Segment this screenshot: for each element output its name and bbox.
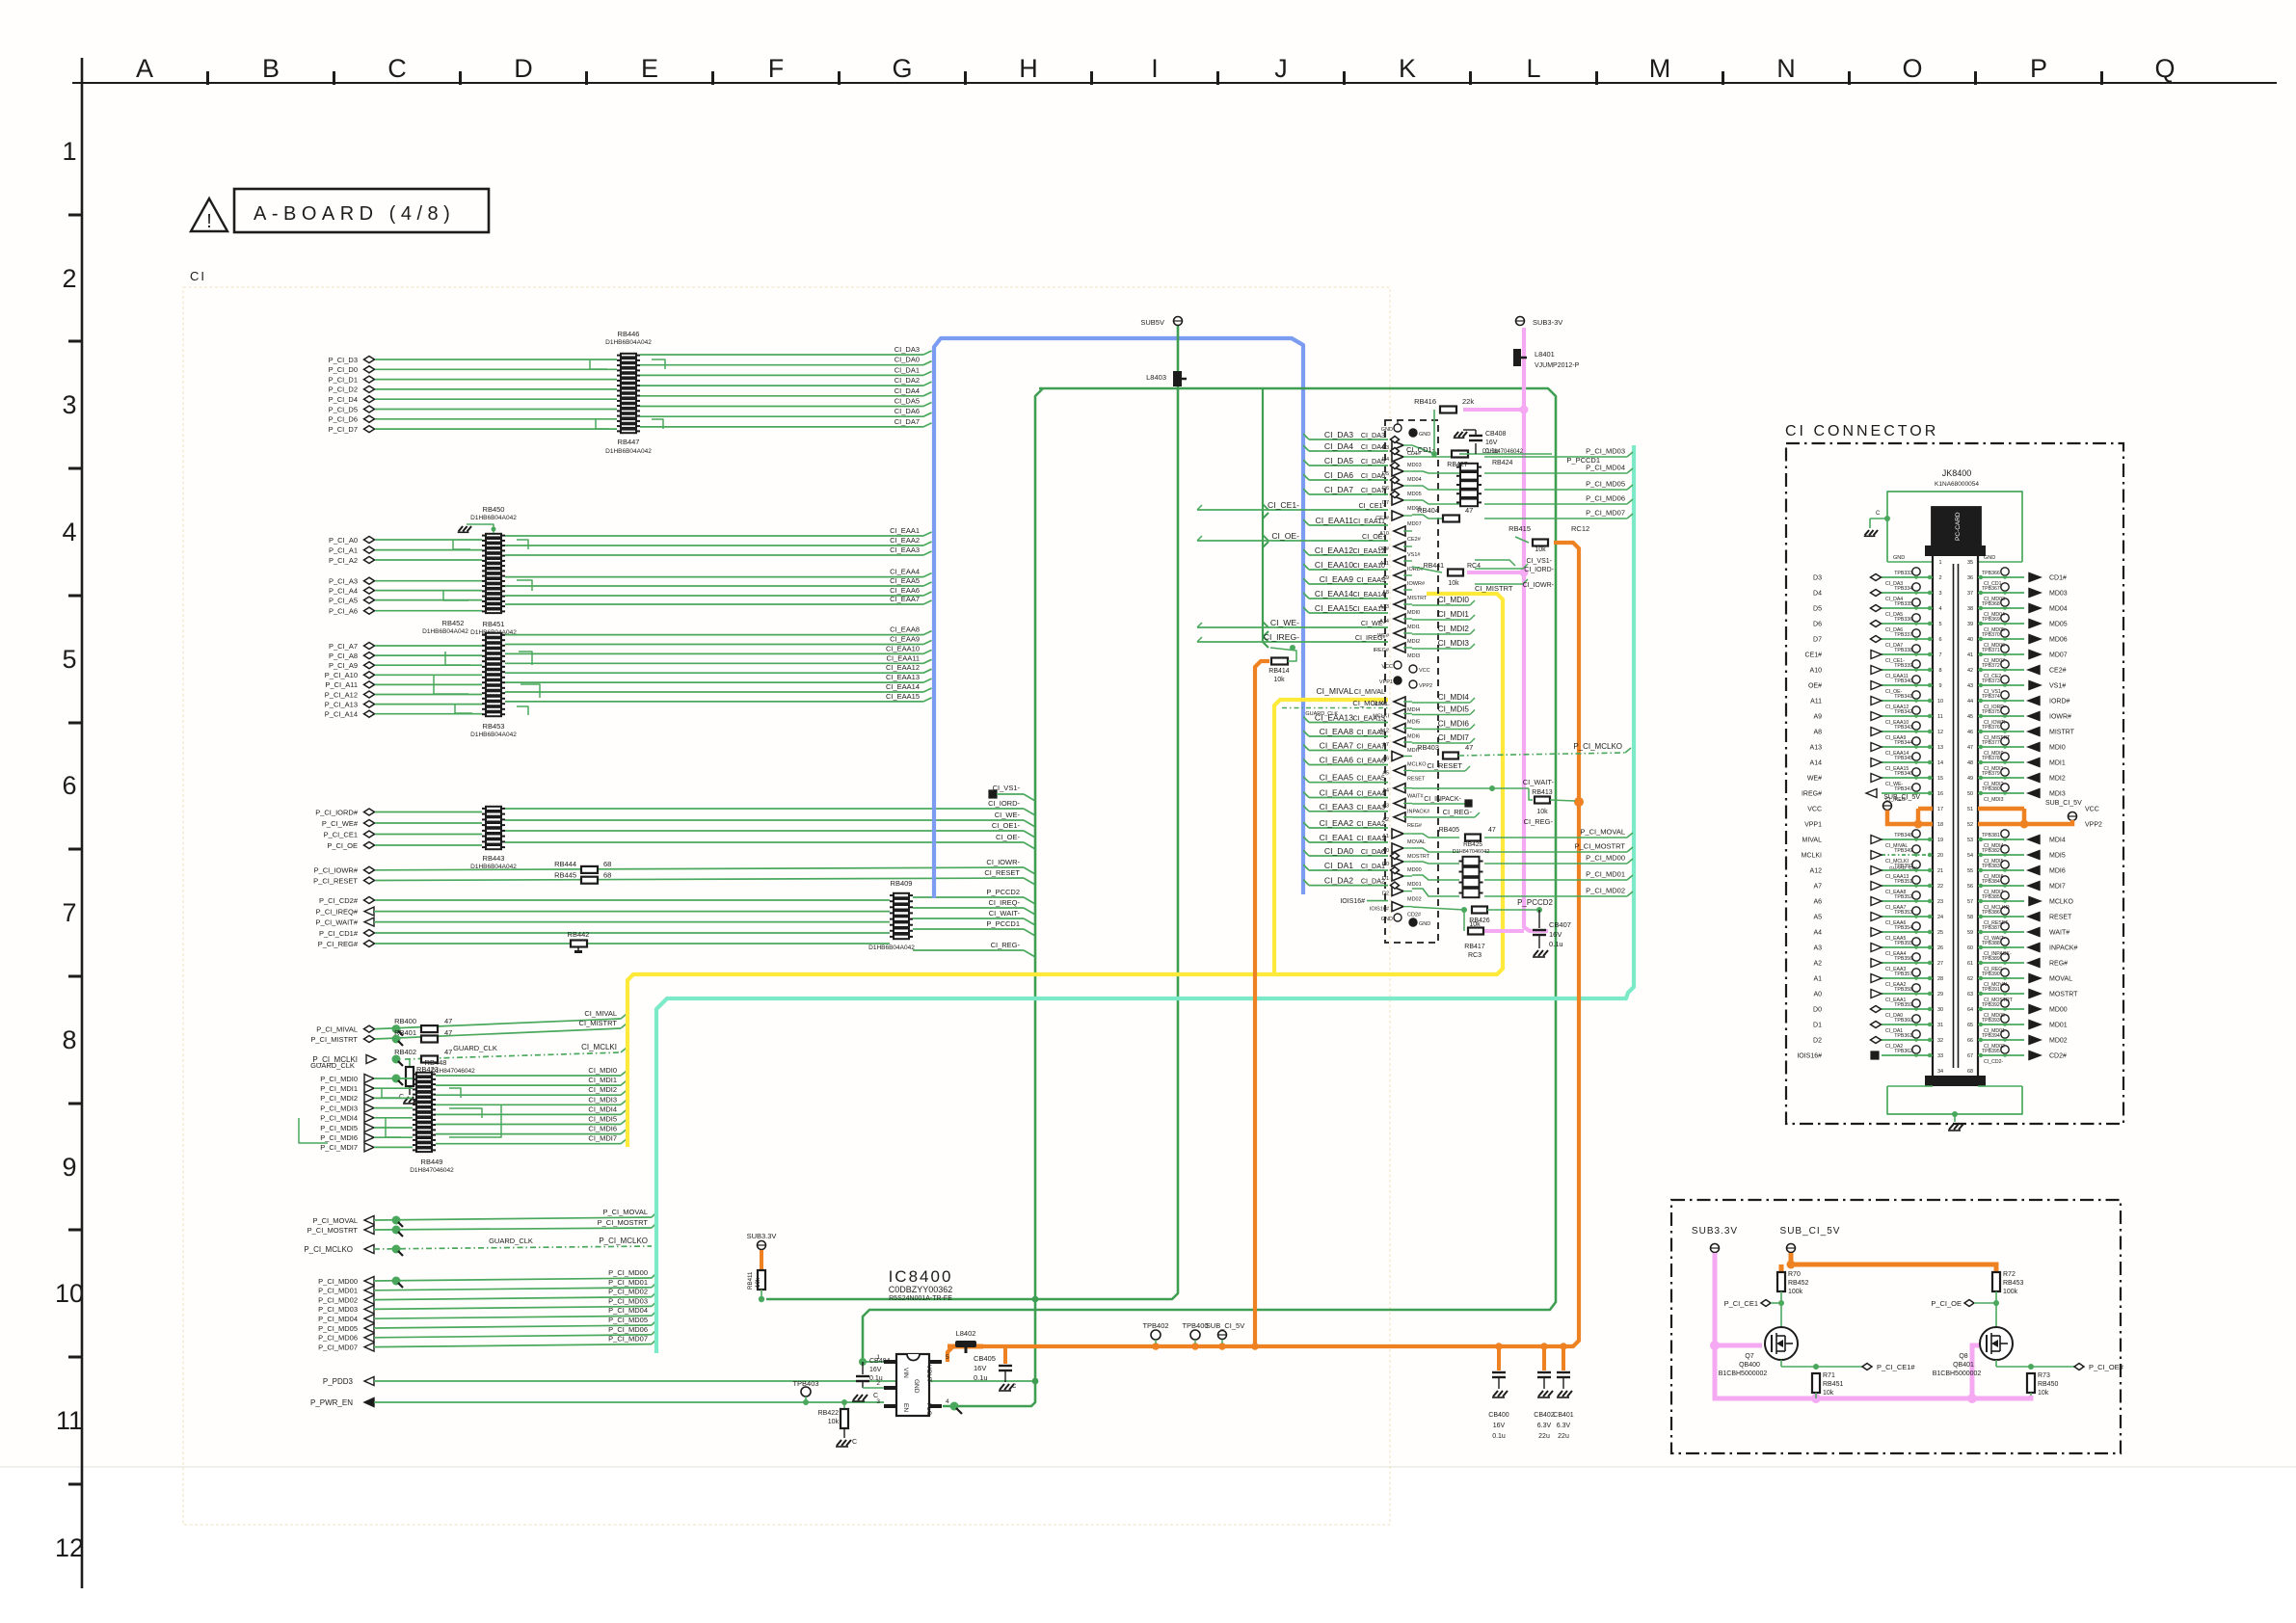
- wires P_CI_MOVAL / P_CI_MOSTRT / P_CI_MCLKO: [304, 1208, 656, 1254]
- svg-text:B1CBH5000002: B1CBH5000002: [1933, 1370, 1982, 1377]
- svg-text:TPB339: TPB339: [1894, 663, 1912, 669]
- svg-text:P_CI_WE#: P_CI_WE#: [322, 819, 359, 828]
- svg-text:CI_IORD-: CI_IORD-: [1524, 567, 1554, 573]
- svg-text:D2: D2: [1813, 1038, 1822, 1045]
- svg-text:D1HB6B04A042: D1HB6B04A042: [605, 448, 652, 455]
- svg-text:47: 47: [444, 1017, 452, 1025]
- svg-text:12: 12: [1937, 730, 1943, 735]
- svg-text:14: 14: [1937, 760, 1943, 766]
- svg-text:MCLKI: MCLKI: [1802, 853, 1822, 860]
- svg-text:L: L: [1526, 54, 1540, 83]
- svg-text:10k: 10k: [755, 1277, 761, 1288]
- net stub CI_INPACK-: [1412, 796, 1472, 807]
- svg-text:VCC: VCC: [1807, 807, 1822, 813]
- resistor RB442: [568, 930, 590, 953]
- svg-text:CI_OE-: CI_OE-: [1271, 531, 1299, 541]
- svg-text:CI_EAA7: CI_EAA7: [890, 595, 920, 603]
- terminal P_CI_OE: [1931, 1299, 1996, 1308]
- svg-text:IOIS16#: IOIS16#: [1797, 1053, 1822, 1060]
- svg-text:16V: 16V: [1549, 930, 1562, 939]
- svg-text:CB404: CB404: [869, 1358, 891, 1365]
- svg-text:P_CI_MOSTRT: P_CI_MOSTRT: [1575, 842, 1626, 851]
- svg-text:P_CI_MDI6: P_CI_MDI6: [320, 1133, 358, 1142]
- svg-text:CI_EAA15: CI_EAA15: [1352, 604, 1385, 613]
- svg-text:MD07: MD07: [1407, 521, 1422, 527]
- svg-text:K: K: [1399, 54, 1416, 83]
- svg-text:RB409: RB409: [891, 879, 913, 888]
- svg-text:CI_MISTRT: CI_MISTRT: [579, 1019, 618, 1027]
- svg-text:P_CI_MD02: P_CI_MD02: [318, 1295, 358, 1304]
- svg-text:100k: 100k: [1788, 1289, 1803, 1295]
- svg-text:WAIT#: WAIT#: [1407, 794, 1425, 800]
- svg-text:GND: GND: [1381, 917, 1393, 922]
- svg-text:P_CI_MIVAL: P_CI_MIVAL: [316, 1024, 358, 1033]
- svg-text:OE#: OE#: [1808, 683, 1822, 690]
- svg-text:TPB374: TPB374: [1982, 694, 2000, 700]
- svg-text:TPB381: TPB381: [1982, 833, 2000, 838]
- svg-text:29: 29: [1937, 992, 1943, 998]
- svg-text:VS1#: VS1#: [2049, 683, 2066, 690]
- svg-text:TPB343: TPB343: [1894, 725, 1912, 731]
- svg-text:TPB337: TPB337: [1894, 632, 1912, 638]
- wires P_CI_IOWR / P_CI_RESET: [313, 858, 1035, 885]
- svg-text:TPB359: TPB359: [1894, 1002, 1912, 1008]
- svg-text:CI_EAA13: CI_EAA13: [1352, 714, 1385, 723]
- blue trunk wire (data/address collector): [934, 338, 1303, 898]
- resistor RB403 MCLKO dashed: [1417, 742, 1631, 759]
- svg-text:CI_EAA3: CI_EAA3: [1320, 802, 1354, 811]
- svg-text:D1HB6B04A042: D1HB6B04A042: [470, 515, 517, 521]
- svg-text:R72: R72: [2003, 1271, 2016, 1278]
- svg-text:P_PCCD1: P_PCCD1: [986, 919, 1020, 928]
- svg-text:CI_MDI1: CI_MDI1: [588, 1076, 617, 1084]
- svg-text:TPB360: TPB360: [1894, 1018, 1912, 1024]
- svg-text:D2: D2: [1382, 891, 1389, 897]
- svg-text:47: 47: [1465, 743, 1473, 752]
- svg-text:45: 45: [1967, 714, 1973, 720]
- svg-text:TPB391: TPB391: [1982, 987, 2000, 993]
- svg-text:23: 23: [1937, 899, 1943, 905]
- svg-text:18: 18: [1937, 822, 1943, 828]
- svg-text:10: 10: [1937, 699, 1943, 705]
- svg-text:10k: 10k: [1469, 921, 1481, 928]
- svg-text:VPP2: VPP2: [1419, 683, 1432, 689]
- resistor RB414: [1268, 645, 1296, 683]
- svg-text:CI_EAA5: CI_EAA5: [1320, 773, 1354, 783]
- svg-text:CE1#: CE1#: [1804, 652, 1822, 659]
- svg-text:RB411: RB411: [747, 1271, 754, 1290]
- net CI_WAIT- with RB413: [1412, 778, 1575, 815]
- svg-text:C: C: [399, 1094, 404, 1101]
- svg-text:H: H: [1019, 54, 1038, 83]
- svg-text:65: 65: [1967, 1023, 1973, 1028]
- connector left SUB_CI_5V orange: [1883, 794, 1934, 829]
- svg-text:RB427: RB427: [1447, 462, 1468, 468]
- svg-text:MD00: MD00: [2049, 1007, 2068, 1014]
- crossover jogs near RB448: [382, 1088, 399, 1098]
- svg-text:P_CI_MD01: P_CI_MD01: [608, 1278, 648, 1287]
- svg-text:IC8400: IC8400: [889, 1267, 953, 1286]
- wire bus P_CI_IORD/WE/CE1/OE: [315, 799, 1035, 850]
- net-tie dots group7: [392, 1024, 401, 1033]
- svg-text:CI_EAA2: CI_EAA2: [890, 536, 920, 545]
- svg-text:CI_WE-: CI_WE-: [1270, 618, 1299, 627]
- svg-text:I: I: [1151, 54, 1159, 83]
- test points TPB402 TPB400 SUB_CI_5V on 5V rail: [1142, 1321, 1244, 1344]
- svg-text:P_CI_A13: P_CI_A13: [325, 700, 358, 708]
- svg-text:D1HB6B04A042: D1HB6B04A042: [868, 945, 915, 951]
- svg-text:CI_MDI6: CI_MDI6: [1438, 720, 1470, 729]
- svg-text:CI_EAA8: CI_EAA8: [1356, 728, 1385, 736]
- svg-text:SUB_CI_5V: SUB_CI_5V: [1883, 794, 1920, 801]
- svg-text:6.3V: 6.3V: [1537, 1423, 1552, 1429]
- svg-text:TPB347: TPB347: [1894, 786, 1912, 792]
- svg-text:54: 54: [1967, 853, 1973, 859]
- svg-text:A2: A2: [1813, 961, 1822, 968]
- svg-text:A7: A7: [1813, 884, 1822, 891]
- svg-text:67: 67: [1967, 1053, 1973, 1059]
- svg-text:TPB386: TPB386: [1982, 910, 2000, 916]
- svg-text:INPACK#: INPACK#: [2049, 945, 2078, 952]
- net stubs CI_MDI4-MDI7: [1412, 693, 1475, 743]
- svg-text:MOSTRT: MOSTRT: [2049, 992, 2078, 998]
- svg-text:P_CI_MD03: P_CI_MD03: [318, 1305, 358, 1314]
- svg-text:MISTRT: MISTRT: [2049, 730, 2075, 736]
- svg-text:CI_MIVAL: CI_MIVAL: [1354, 687, 1385, 696]
- resistor RB411: [747, 1250, 765, 1302]
- svg-text:MD00: MD00: [1407, 867, 1422, 873]
- svg-text:MD04: MD04: [1407, 477, 1422, 483]
- svg-text:MD02: MD02: [2049, 1038, 2068, 1045]
- svg-text:N: N: [1776, 54, 1796, 83]
- svg-text:VPP1: VPP1: [1379, 679, 1393, 685]
- resistor pack RB425: [1459, 856, 1483, 898]
- svg-text:P_CI_MOSTRT: P_CI_MOSTRT: [598, 1218, 649, 1227]
- svg-text:CI_MDI4: CI_MDI4: [1438, 693, 1470, 702]
- svg-text:C: C: [852, 1439, 857, 1446]
- svg-text:RB448: RB448: [425, 1058, 447, 1067]
- svg-text:A6: A6: [1813, 899, 1822, 906]
- svg-text:46: 46: [1967, 730, 1973, 735]
- svg-text:P_CI_A1: P_CI_A1: [329, 545, 358, 554]
- orange junction dots on power rail: [1152, 1343, 1160, 1350]
- net-tie dots group9: [392, 1216, 401, 1225]
- svg-text:R73: R73: [2038, 1372, 2050, 1379]
- resistor RB402: [421, 1056, 438, 1063]
- svg-text:5: 5: [62, 645, 76, 674]
- svg-text:P_PCCD2: P_PCCD2: [1517, 898, 1553, 907]
- connector PC-CARD block: [1932, 507, 1981, 545]
- svg-text:TPB375: TPB375: [1982, 709, 2000, 715]
- svg-text:CI_EAA6: CI_EAA6: [1320, 756, 1354, 765]
- wire VIN junction: [859, 1358, 884, 1366]
- svg-text:P_CI_D0: P_CI_D0: [329, 365, 358, 374]
- svg-text:TPB352: TPB352: [1894, 894, 1912, 900]
- svg-text:EN: EN: [902, 1403, 909, 1412]
- svg-text:P_CI_MCLKO: P_CI_MCLKO: [1573, 742, 1622, 751]
- svg-text:GUARD_CLK: GUARD_CLK: [489, 1237, 533, 1245]
- svg-text:P_CI_MD05: P_CI_MD05: [318, 1324, 358, 1333]
- svg-text:D1H847046042: D1H847046042: [1453, 849, 1490, 855]
- svg-text:RB441: RB441: [1424, 563, 1445, 570]
- svg-text:CI_DA0: CI_DA0: [1361, 847, 1385, 856]
- svg-text:RB404: RB404: [1417, 506, 1439, 515]
- svg-text:CI_DA3: CI_DA3: [894, 345, 920, 354]
- border ruler top line: [72, 82, 2277, 84]
- svg-text:SUB3-3V: SUB3-3V: [1533, 318, 1562, 327]
- svg-text:28: 28: [1937, 976, 1943, 982]
- svg-text:CB407: CB407: [1549, 920, 1571, 929]
- svg-text:A4: A4: [1813, 930, 1822, 937]
- green control bundle vertical: [1263, 388, 1268, 648]
- pink branch RB441: [1467, 571, 1524, 574]
- svg-text:32: 32: [1937, 1038, 1943, 1044]
- svg-text:CI_EAA11: CI_EAA11: [887, 653, 920, 662]
- svg-text:TPB392: TPB392: [1982, 1002, 2000, 1008]
- svg-text:48: 48: [1967, 760, 1973, 766]
- svg-text:D0: D0: [1813, 1007, 1822, 1014]
- svg-text:P_CI_OE: P_CI_OE: [1931, 1299, 1962, 1308]
- svg-text:CI_IORD-: CI_IORD-: [988, 799, 1020, 808]
- svg-text:6: 6: [62, 771, 76, 800]
- svg-text:4: 4: [1938, 606, 1941, 612]
- svg-text:P_CI_D6: P_CI_D6: [329, 415, 358, 424]
- connector right SUB_CI_5V orange: [1978, 800, 2082, 829]
- svg-text:68: 68: [603, 871, 611, 880]
- svg-text:IOIS16#: IOIS16#: [1340, 898, 1365, 905]
- svg-text:RB451: RB451: [1823, 1381, 1844, 1388]
- svg-text:MDI5: MDI5: [1407, 720, 1420, 726]
- svg-text:MDI1: MDI1: [1407, 625, 1420, 630]
- svg-text:CB405: CB405: [974, 1354, 996, 1363]
- svg-text:TPB383: TPB383: [1982, 864, 2000, 869]
- svg-text:RB442: RB442: [568, 930, 590, 939]
- svg-text:RC3: RC3: [1468, 952, 1482, 959]
- svg-text:38: 38: [1967, 606, 1973, 612]
- svg-text:CI_EAA10: CI_EAA10: [1352, 561, 1385, 570]
- orange trunk RB414 branch: [1255, 661, 1269, 1346]
- svg-text:P_CI_MCLKO: P_CI_MCLKO: [304, 1245, 353, 1254]
- svg-text:VCC: VCC: [2085, 807, 2099, 813]
- capacitors CB400 CB402 CB401 with grounds: [1488, 1346, 1574, 1440]
- svg-text:10k: 10k: [1536, 809, 1548, 815]
- svg-text:19: 19: [1937, 838, 1943, 843]
- crossover jogs near RB452: [445, 652, 470, 665]
- svg-text:GUARD_CLK: GUARD_CLK: [310, 1061, 355, 1070]
- svg-text:RESET: RESET: [2049, 915, 2072, 921]
- svg-text:TPB342: TPB342: [1894, 709, 1912, 715]
- wire bus P_CI_MD00-MD07: [318, 1268, 656, 1351]
- svg-text:1: 1: [1938, 560, 1941, 566]
- svg-text:P_CI_RESET: P_CI_RESET: [313, 876, 358, 885]
- svg-text:16V: 16V: [1493, 1423, 1506, 1429]
- svg-text:P_CI_A8: P_CI_A8: [329, 652, 358, 660]
- svg-text:RB416: RB416: [1414, 397, 1436, 406]
- svg-text:P_CI_A12: P_CI_A12: [325, 690, 358, 699]
- svg-text:CI_MDI2: CI_MDI2: [1438, 625, 1470, 633]
- svg-text:VPP1: VPP1: [1804, 822, 1822, 829]
- capacitor CB408 with ground: [1454, 430, 1507, 455]
- svg-text:TPB358: TPB358: [1894, 987, 1912, 993]
- svg-text:0.1u: 0.1u: [1485, 448, 1499, 455]
- svg-text:CI_EAA10: CI_EAA10: [1315, 560, 1353, 570]
- svg-text:CI_EAA3: CI_EAA3: [1356, 803, 1385, 811]
- power SUB3-3V top: [1516, 317, 1563, 328]
- svg-text:RB452: RB452: [1788, 1280, 1809, 1287]
- power SUB_CI_5V in box: [1780, 1226, 1841, 1253]
- svg-text:MD04: MD04: [2049, 606, 2068, 613]
- svg-text:A-BOARD (4/8): A-BOARD (4/8): [254, 203, 455, 225]
- svg-text:A: A: [136, 54, 153, 83]
- svg-text:CI_CD1-: CI_CD1-: [1406, 445, 1435, 454]
- svg-text:17: 17: [1937, 807, 1943, 812]
- svg-text:CE2#: CE2#: [1407, 537, 1422, 543]
- svg-text:RB450: RB450: [2038, 1381, 2059, 1388]
- svg-text:A1: A1: [1813, 976, 1822, 983]
- svg-text:D1HB6B04A042: D1HB6B04A042: [605, 339, 652, 346]
- svg-text:D1: D1: [1813, 1023, 1822, 1029]
- svg-text:CD2#: CD2#: [1407, 913, 1422, 918]
- connector JK8400 labels: [1935, 468, 1979, 488]
- svg-text:CI_MDI0: CI_MDI0: [1438, 596, 1470, 604]
- svg-text:P_CI_MD05: P_CI_MD05: [1586, 480, 1625, 489]
- svg-text:CI_DA6: CI_DA6: [1361, 471, 1385, 480]
- svg-text:CD1#: CD1#: [2049, 575, 2067, 582]
- svg-text:A14: A14: [1810, 760, 1823, 767]
- svg-text:IORD#: IORD#: [2049, 699, 2070, 705]
- svg-text:CI_DA4: CI_DA4: [894, 386, 920, 395]
- svg-text:TPB394: TPB394: [1982, 1033, 2000, 1039]
- net CI_CD1- with RB427 RB416 CB408: [1406, 397, 1600, 468]
- resistor RB401: [421, 1036, 438, 1043]
- svg-text:CI_DA5: CI_DA5: [1324, 456, 1353, 466]
- svg-text:A12: A12: [1810, 868, 1823, 875]
- svg-text:QB401: QB401: [1953, 1362, 1974, 1369]
- svg-text:7: 7: [1938, 652, 1941, 658]
- svg-text:CE2#: CE2#: [2049, 668, 2067, 675]
- svg-text:P_CI_MD07: P_CI_MD07: [318, 1343, 358, 1351]
- svg-text:C: C: [1876, 511, 1881, 517]
- capacitor CB407 with ground: [1533, 910, 1571, 957]
- svg-text:CI_MDI6: CI_MDI6: [588, 1125, 617, 1133]
- svg-text:RB414: RB414: [1268, 668, 1290, 675]
- svg-text:TPB393: TPB393: [1982, 1018, 2000, 1024]
- IC power pins VCC VPP GND: [1379, 420, 1432, 927]
- svg-text:IREG#: IREG#: [1802, 791, 1822, 798]
- svg-text:CI_DA7: CI_DA7: [894, 417, 920, 426]
- svg-text:10k: 10k: [1535, 546, 1546, 553]
- net stub CI_REG-: [1412, 808, 1554, 826]
- svg-text:Q7: Q7: [1745, 1353, 1753, 1360]
- svg-text:0.1u: 0.1u: [1549, 940, 1563, 948]
- border ruler left line: [81, 58, 84, 1588]
- svg-text:MD01: MD01: [2049, 1023, 2068, 1029]
- svg-text:MDI6: MDI6: [2049, 868, 2066, 875]
- cyan trunk wire: [656, 445, 1634, 1353]
- svg-text:P_CI_MD07: P_CI_MD07: [608, 1335, 648, 1344]
- svg-text:CB401: CB401: [1553, 1412, 1574, 1419]
- resistor pack RB448: [413, 1072, 436, 1153]
- svg-text:WAIT#: WAIT#: [2049, 930, 2069, 937]
- svg-text:CI_DA2: CI_DA2: [1324, 876, 1353, 886]
- svg-text:P_CI_MCLKO: P_CI_MCLKO: [599, 1237, 648, 1245]
- resistor R72 RB453 100k: [1992, 1271, 2024, 1328]
- svg-text:55: 55: [1967, 868, 1973, 874]
- power SUB3.3V in box: [1692, 1226, 1738, 1253]
- svg-text:16V: 16V: [1485, 439, 1498, 446]
- svg-text:CI_DA3: CI_DA3: [1324, 430, 1353, 439]
- svg-text:CI_REG-: CI_REG-: [991, 941, 1021, 949]
- svg-text:TPB366: TPB366: [1982, 571, 2000, 576]
- svg-text:CI_MDI1: CI_MDI1: [1438, 610, 1470, 619]
- svg-text:A9: A9: [1813, 714, 1822, 721]
- svg-text:TPB371: TPB371: [1982, 648, 2000, 653]
- svg-text:CI_IREG-: CI_IREG-: [1355, 633, 1386, 642]
- svg-text:TPB333: TPB333: [1894, 571, 1912, 576]
- svg-text:MDI2: MDI2: [2049, 776, 2066, 783]
- svg-text:P_CI_D1: P_CI_D1: [329, 375, 358, 384]
- svg-text:3: 3: [1938, 591, 1941, 597]
- svg-text:RB452: RB452: [442, 619, 465, 627]
- svg-text:CI_DA6: CI_DA6: [894, 407, 920, 415]
- svg-text:RB453: RB453: [483, 722, 505, 731]
- resistor RB400: [421, 1025, 438, 1032]
- transistor Q7 QB400: [1765, 1327, 1798, 1360]
- svg-text:TPB390: TPB390: [1982, 971, 2000, 977]
- svg-text:VS1#: VS1#: [1407, 552, 1421, 558]
- connector right pin rows: [1967, 560, 2102, 1075]
- svg-text:CI_DA2: CI_DA2: [894, 376, 920, 385]
- svg-text:1: 1: [62, 137, 76, 166]
- svg-text:3: 3: [62, 390, 76, 419]
- svg-text:P_CI_MD03: P_CI_MD03: [1586, 447, 1625, 456]
- svg-text:TPB354: TPB354: [1894, 925, 1912, 931]
- svg-text:P_CI_MOVAL: P_CI_MOVAL: [1580, 828, 1625, 837]
- svg-text:CI_EAA5: CI_EAA5: [1356, 774, 1385, 783]
- svg-text:CI_MDI7: CI_MDI7: [1438, 733, 1470, 742]
- svg-text:39: 39: [1967, 622, 1973, 627]
- svg-text:10k: 10k: [1273, 677, 1285, 683]
- svg-text:IREG#: IREG#: [1373, 648, 1389, 653]
- svg-text:4: 4: [62, 518, 76, 546]
- svg-text:CI_MDI5: CI_MDI5: [1438, 705, 1470, 714]
- svg-text:CI_CD2-: CI_CD2-: [1984, 1059, 2003, 1065]
- svg-text:CI_IOWR-: CI_IOWR-: [1523, 582, 1555, 589]
- svg-text:31: 31: [1937, 1023, 1943, 1028]
- test point TPB403: [792, 1379, 818, 1405]
- svg-text:P_CI_MD06: P_CI_MD06: [318, 1334, 358, 1343]
- wire bus P_CI_MDI0-MDI7: [320, 1066, 627, 1152]
- svg-text:TPB346: TPB346: [1894, 771, 1912, 777]
- svg-text:MCLKO: MCLKO: [1407, 762, 1427, 768]
- svg-text:C: C: [1012, 1384, 1017, 1390]
- Q8 source to output: [1996, 1360, 2074, 1370]
- svg-text:D1HB6B04A042: D1HB6B04A042: [422, 628, 468, 635]
- svg-text:100k: 100k: [2003, 1289, 2018, 1295]
- svg-text:CI: CI: [190, 269, 206, 283]
- svg-text:TPB384: TPB384: [1982, 879, 2000, 885]
- svg-text:D1H847046042: D1H847046042: [410, 1167, 454, 1174]
- svg-text:59: 59: [1967, 930, 1973, 936]
- svg-text:TPB356: TPB356: [1894, 956, 1912, 962]
- svg-text:RB424: RB424: [1492, 460, 1513, 466]
- svg-text:TPB351: TPB351: [1894, 879, 1912, 885]
- svg-text:MOVAL: MOVAL: [1407, 839, 1426, 845]
- svg-text:12: 12: [55, 1533, 84, 1562]
- svg-text:10k: 10k: [1448, 580, 1459, 587]
- svg-text:P: P: [2030, 54, 2047, 83]
- svg-text:CI_EAA11: CI_EAA11: [1353, 517, 1385, 525]
